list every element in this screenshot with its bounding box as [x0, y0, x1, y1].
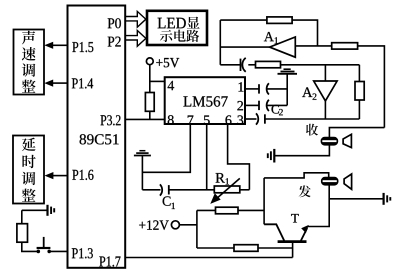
wire pin3	[245, 118, 257, 120]
pin 6	[226, 115, 232, 124]
label P2	[108, 37, 121, 47]
label P1.3	[72, 248, 93, 258]
bus arrow P2	[126, 31, 146, 47]
label P3.2	[101, 115, 121, 125]
pin 8	[168, 115, 174, 124]
wire collector to transmit disc	[264, 173, 329, 178]
wire +5V down	[149, 65, 151, 93]
label A1	[264, 32, 278, 44]
wire R2 to collector rail	[238, 209, 264, 211]
transistor T	[264, 224, 309, 241]
label T	[291, 214, 299, 223]
wire +12V to rail	[179, 224, 197, 226]
wire to R3	[197, 247, 234, 249]
block LED display circuit	[147, 11, 207, 45]
wire P1.6 arrow	[45, 172, 68, 179]
node +5V	[146, 58, 179, 68]
block 延时调整	[13, 136, 44, 204]
label P1.4	[72, 78, 93, 88]
wire A1 input line	[295, 45, 331, 47]
bus arrow P0	[126, 11, 146, 27]
label P1.7	[99, 256, 120, 266]
wire pin1	[245, 88, 259, 90]
amplifier A1	[270, 37, 296, 57]
horn transmit	[344, 174, 352, 189]
wire transmit to ground	[329, 198, 383, 200]
wire P1.7	[125, 257, 292, 259]
transducer 发 transmit disc	[321, 177, 338, 185]
wire ground to resistor	[21, 210, 23, 223]
horn receive	[343, 134, 351, 147]
wire cap junction vertical	[286, 74, 288, 106]
label 收	[306, 124, 318, 136]
label 延时调整	[22, 138, 36, 202]
resistor R9 A1 input	[332, 43, 358, 49]
wire A1 output line	[220, 64, 240, 66]
wire R3 to base	[258, 247, 293, 249]
wire A1 output	[220, 46, 269, 48]
MCU U1 89C51 box	[68, 6, 126, 268]
ground G3 above C1	[134, 151, 151, 190]
switch S1 pushbutton	[37, 237, 52, 253]
wire pin7 down	[142, 124, 190, 172]
label C1	[163, 196, 175, 209]
ground G5 left	[268, 149, 275, 163]
amplifier A2	[314, 65, 337, 119]
wire feedback top	[220, 19, 267, 21]
wire resistor to switch	[22, 242, 38, 251]
wire receive bottom	[275, 145, 330, 156]
IC U2 LM567 box	[165, 77, 245, 124]
wire input to right rail	[358, 46, 385, 128]
wire feedback right	[292, 20, 317, 46]
potentiometer R1	[210, 178, 240, 204]
resistor R8	[256, 61, 281, 67]
wire pin6 down	[228, 124, 250, 190]
node +12V	[139, 220, 179, 230]
label LM567	[183, 96, 227, 107]
block 声速调整	[14, 30, 45, 95]
transducer 收 receive disc	[321, 137, 338, 145]
ground G4 right	[384, 193, 391, 205]
wire collector vertical	[263, 178, 265, 224]
wire C3 to R8	[248, 64, 255, 66]
resistor R4 feedback	[267, 17, 292, 24]
pin 2	[237, 101, 243, 110]
wire switch to P1.3	[49, 250, 67, 252]
resistor R3 base	[234, 245, 258, 252]
label 示电路	[160, 30, 199, 42]
ground G1 sideways	[22, 205, 54, 216]
label 发	[299, 185, 311, 197]
label P0	[108, 18, 121, 28]
wire P1.4 arrow	[44, 80, 67, 87]
capacitor C1	[160, 184, 214, 195]
capacitor C3 coupling	[241, 58, 246, 72]
label C2	[272, 105, 283, 115]
resistor R2 collector bias	[216, 207, 239, 214]
wire 12V rail vertical	[196, 210, 198, 248]
wire pin5 down	[206, 124, 208, 190]
label 89C51	[80, 134, 119, 144]
pin 4	[168, 81, 175, 90]
wire receive top	[329, 128, 384, 138]
wire emitter to transducer	[308, 185, 329, 227]
label LED显	[158, 17, 200, 29]
label P1.6	[72, 170, 93, 180]
capacitor C2	[259, 100, 287, 111]
wire pin2	[245, 104, 259, 106]
wire ground to C1	[142, 189, 160, 191]
label 声速调整	[22, 31, 36, 93]
label A2	[302, 87, 316, 99]
capacitor pin3 coupling	[256, 113, 265, 124]
ground G2 under A1 line	[278, 69, 298, 74]
wire P1.5 arrow	[44, 42, 67, 49]
wire to R2	[197, 209, 216, 211]
wire base vertical	[292, 242, 294, 258]
capacitor pin1	[259, 83, 287, 94]
wire P3.2 to LM567 pin8	[125, 118, 165, 120]
label P1.5	[72, 42, 93, 52]
pin 5	[204, 116, 210, 125]
pin 1	[239, 82, 244, 91]
wire R8 to A2 line	[281, 64, 360, 66]
pin 3	[238, 115, 244, 124]
resistor R6	[145, 93, 154, 112]
resistor R7 A2 load	[355, 65, 364, 119]
wire R1 right	[240, 189, 250, 191]
resistor R5	[17, 224, 28, 243]
wire A1 feedback vertical	[219, 20, 221, 65]
wire +5V to pin4	[150, 80, 165, 82]
wire resistor to pin8 line	[149, 111, 151, 119]
wire pin3 line to A2	[265, 118, 360, 120]
label R1	[216, 173, 229, 184]
pin 7	[188, 116, 194, 125]
